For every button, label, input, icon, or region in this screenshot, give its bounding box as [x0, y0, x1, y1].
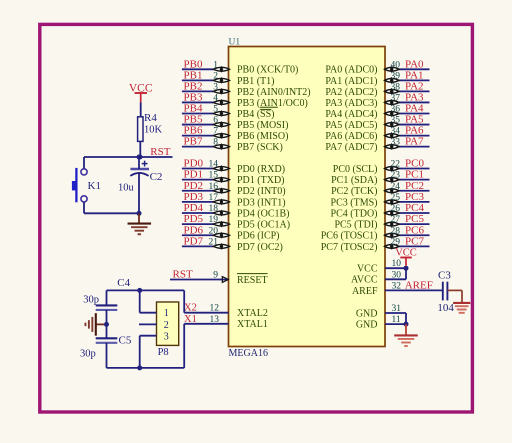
wire X1 vertical — [183, 324, 185, 368]
svg-text:AVCC: AVCC — [351, 275, 378, 286]
wire RST node + net label RST — [84, 146, 173, 159]
svg-text:7: 7 — [213, 127, 218, 137]
svg-text:3: 3 — [213, 82, 218, 92]
pin 39 PA1 wire+label — [325, 69, 429, 86]
pin 18 PD4 wire+label — [182, 202, 290, 219]
wire P8 pin1 — [140, 290, 157, 312]
svg-text:39: 39 — [391, 71, 401, 81]
pin 10 VCC wire — [357, 259, 406, 274]
power symbol VCC (right) — [395, 248, 417, 266]
svg-text:23: 23 — [391, 171, 401, 181]
svg-text:3: 3 — [164, 332, 169, 343]
svg-text:22: 22 — [391, 160, 401, 170]
pin 28 PC6 wire+label — [321, 224, 430, 241]
pin 38 PA2 wire+label — [325, 80, 429, 97]
wire R4-RST node — [139, 141, 141, 157]
pin 14 PD0 wire+label — [182, 158, 285, 175]
svg-text:PA2 (ADC2): PA2 (ADC2) — [325, 87, 377, 98]
svg-text:16: 16 — [209, 182, 219, 192]
svg-text:17: 17 — [209, 193, 219, 203]
svg-text:37: 37 — [391, 93, 401, 103]
svg-text:10u: 10u — [118, 183, 135, 194]
svg-text:XTAL2: XTAL2 — [237, 308, 268, 319]
svg-text:1: 1 — [164, 308, 169, 319]
svg-text:PC3 (TMS): PC3 (TMS) — [331, 197, 378, 208]
svg-text:GND: GND — [356, 308, 378, 319]
pin 37 PA3 wire+label — [325, 91, 429, 108]
svg-text:20: 20 — [209, 226, 219, 236]
svg-text:PC0 (SCL): PC0 (SCL) — [333, 164, 378, 175]
svg-text:C2: C2 — [150, 171, 163, 183]
svg-text:28: 28 — [391, 226, 401, 236]
svg-text:5: 5 — [213, 105, 218, 115]
svg-text:PD1 (TXD): PD1 (TXD) — [237, 175, 285, 186]
svg-text:1: 1 — [213, 60, 218, 70]
svg-text:PD7: PD7 — [184, 235, 204, 247]
svg-text:PA7: PA7 — [405, 136, 424, 148]
pin 20 PD6 wire+label — [182, 224, 280, 241]
designator U1 — [229, 38, 241, 48]
svg-text:14: 14 — [209, 160, 219, 170]
svg-text:PD4 (OC1B): PD4 (OC1B) — [237, 208, 290, 219]
pin 25 PC3 wire+label — [331, 191, 430, 208]
pin 24 PC2 wire+label — [331, 180, 429, 197]
svg-text:12: 12 — [210, 304, 220, 314]
capacitor C3 104 — [437, 270, 454, 314]
pin 32 AREF wire + net label — [352, 280, 443, 297]
pin 1 PB0 wire+label — [182, 58, 299, 75]
svg-text:29: 29 — [391, 237, 401, 247]
svg-text:33: 33 — [391, 138, 401, 148]
svg-text:32: 32 — [392, 281, 402, 291]
pin 40 PA0 wire+label — [325, 58, 429, 75]
wire P8 pin2 — [139, 323, 157, 325]
svg-text:26: 26 — [391, 204, 401, 214]
pin 30 AVCC wire + junction — [351, 266, 409, 286]
svg-text:PD6 (ICP): PD6 (ICP) — [237, 231, 280, 242]
pin 5 PB4 wire+label — [182, 103, 275, 120]
ground (reset RC) — [128, 213, 152, 234]
svg-text:PC7: PC7 — [405, 235, 424, 247]
svg-text:C5: C5 — [119, 334, 132, 346]
svg-text:18: 18 — [209, 204, 219, 214]
svg-text:AREF: AREF — [405, 280, 433, 292]
svg-text:PB6 (MISO): PB6 (MISO) — [237, 131, 288, 142]
svg-text:40: 40 — [391, 60, 401, 70]
svg-text:15: 15 — [209, 171, 219, 181]
pin 13 XTAL1 wire + X1 net label — [184, 314, 268, 330]
pin 26 PC4 wire+label — [331, 202, 430, 219]
svg-text:PA3 (ADC3): PA3 (ADC3) — [325, 98, 377, 109]
svg-text:PA5 (ADC5): PA5 (ADC5) — [325, 120, 377, 131]
pin 29 PC7 wire+label — [321, 235, 430, 252]
pin 16 PD2 wire+label — [182, 180, 286, 197]
pin 11 GND wire + junction — [356, 313, 409, 331]
svg-text:PD2 (INT0): PD2 (INT0) — [237, 186, 286, 197]
pin 17 PD3 wire+label — [182, 191, 286, 208]
svg-text:38: 38 — [391, 82, 401, 92]
svg-text:K1: K1 — [88, 180, 101, 192]
wire crystal bottom + junction — [107, 365, 185, 370]
svg-text:GND: GND — [356, 320, 378, 331]
pin 2 PB1 wire+label — [182, 69, 275, 86]
pin 31 GND wire — [356, 304, 406, 319]
pin 34 PA6 wire+label — [325, 125, 429, 142]
capacitor C2 10u polarized — [118, 155, 162, 214]
svg-text:30p: 30p — [83, 295, 99, 306]
op IC body U1 MEGA16 — [229, 47, 386, 347]
svg-text:PC7 (TOSC2): PC7 (TOSC2) — [321, 242, 378, 253]
svg-text:PA6 (ADC6): PA6 (ADC6) — [325, 131, 377, 142]
svg-text:VCC: VCC — [357, 264, 378, 275]
svg-text:34: 34 — [391, 127, 401, 137]
svg-text:PB2 (AIN0/INT2): PB2 (AIN0/INT2) — [237, 87, 311, 98]
svg-text:PB5 (MOSI): PB5 (MOSI) — [237, 120, 288, 131]
svg-text:6: 6 — [213, 116, 218, 126]
pin 6 PB5 wire+label — [182, 114, 289, 131]
svg-text:U1: U1 — [229, 38, 241, 48]
svg-text:2: 2 — [213, 71, 218, 81]
pin 8 PB7 wire+label — [182, 136, 283, 153]
svg-text:35: 35 — [391, 116, 401, 126]
svg-text:PA1 (ADC1): PA1 (ADC1) — [325, 76, 377, 87]
svg-text:RST: RST — [150, 146, 170, 158]
pin 7 PB6 wire+label — [182, 125, 289, 142]
svg-text:8: 8 — [213, 138, 218, 148]
svg-text:RST: RST — [173, 269, 193, 281]
svg-text:4: 4 — [213, 93, 218, 103]
svg-text:PD5 (OC1A): PD5 (OC1A) — [237, 220, 290, 231]
resonator P8 — [157, 302, 179, 358]
wire K1-C2 bottom + junction — [84, 211, 142, 216]
svg-text:PC4 (TDO): PC4 (TDO) — [331, 208, 378, 219]
pin 23 PC1 wire+label — [331, 169, 429, 186]
svg-text:AREF: AREF — [352, 286, 378, 297]
pin 12 XTAL2 wire + X2 net label — [184, 303, 268, 320]
capacitor C4 30p — [83, 290, 117, 324]
svg-text:PC5 (TDI): PC5 (TDI) — [334, 220, 377, 231]
capacitor C5 30p — [80, 324, 132, 368]
svg-text:PB7 (SCK): PB7 (SCK) — [237, 142, 283, 153]
wire crystal top + junction + label C4 — [107, 277, 185, 293]
svg-text:MEGA16: MEGA16 — [229, 348, 268, 359]
svg-text:PC1 (SDA): PC1 (SDA) — [331, 175, 377, 186]
svg-text:30p: 30p — [80, 349, 96, 360]
ground (crystal, rotated left) — [85, 313, 109, 336]
svg-text:PA0 (ADC0): PA0 (ADC0) — [325, 65, 377, 76]
svg-text:R4: R4 — [144, 112, 157, 124]
svg-text:RESET: RESET — [237, 275, 268, 286]
svg-text:X1: X1 — [184, 314, 197, 325]
svg-text:10K: 10K — [144, 124, 163, 135]
wire VCC-R4 — [140, 103, 142, 117]
svg-text:PC2 (TCK): PC2 (TCK) — [331, 186, 377, 197]
pin 36 PA4 wire+label — [325, 103, 429, 120]
svg-text:P8: P8 — [158, 347, 169, 358]
svg-text:9: 9 — [213, 271, 218, 281]
ground (GND pins) — [394, 324, 418, 346]
svg-text:31: 31 — [392, 304, 402, 314]
svg-text:PD7 (OC2): PD7 (OC2) — [237, 242, 283, 253]
svg-text:36: 36 — [391, 105, 401, 115]
svg-text:24: 24 — [391, 182, 401, 192]
pin 3 PB2 wire+label — [182, 80, 311, 97]
svg-text:PC6 (TOSC1): PC6 (TOSC1) — [321, 231, 378, 242]
svg-text:XTAL1: XTAL1 — [237, 319, 268, 330]
pin 4 PB3 wire+label — [182, 91, 308, 108]
part name MEGA16 — [229, 348, 268, 359]
svg-text:X2: X2 — [184, 303, 197, 314]
svg-text:30: 30 — [392, 270, 402, 280]
pin 21 PD7 wire+label — [182, 235, 283, 252]
svg-text:PB4 (SS): PB4 (SS) — [237, 109, 275, 120]
svg-text:PB1 (T1): PB1 (T1) — [237, 76, 275, 87]
pin 33 PA7 wire+label — [325, 136, 429, 153]
svg-text:PD3 (INT1): PD3 (INT1) — [237, 197, 286, 208]
power symbol VCC (left) — [129, 82, 153, 102]
svg-text:21: 21 — [209, 237, 219, 247]
border frame — [40, 24, 473, 412]
push button K1 — [72, 157, 101, 213]
wire X2 vertical — [183, 290, 185, 312]
wire P8 pin3 — [140, 336, 157, 368]
svg-text:11: 11 — [392, 315, 401, 325]
svg-text:C4: C4 — [117, 277, 130, 289]
pin 27 PC5 wire+label — [334, 213, 429, 230]
resistor R4 10K — [138, 112, 163, 141]
svg-text:PA7 (ADC7): PA7 (ADC7) — [325, 142, 377, 153]
svg-text:13: 13 — [210, 315, 220, 325]
svg-text:19: 19 — [209, 215, 219, 225]
pin 22 PC0 wire+label — [333, 158, 430, 175]
svg-text:PB7: PB7 — [184, 136, 203, 148]
svg-text:PD0 (RXD): PD0 (RXD) — [237, 164, 285, 175]
svg-text:27: 27 — [391, 215, 401, 225]
svg-text:104: 104 — [437, 302, 454, 314]
svg-text:PB0 (XCK/T0): PB0 (XCK/T0) — [237, 65, 298, 76]
pin 9 RESET wire + RST net label — [170, 269, 268, 286]
ground (AREF C3) — [447, 290, 470, 312]
svg-text:2: 2 — [164, 320, 169, 331]
pin 15 PD1 wire+label — [182, 169, 285, 186]
svg-text:25: 25 — [391, 193, 401, 203]
svg-text:VCC: VCC — [395, 248, 417, 259]
svg-text:PA4 (ADC4): PA4 (ADC4) — [325, 109, 377, 120]
svg-text:C3: C3 — [438, 270, 451, 282]
pin 35 PA5 wire+label — [325, 114, 429, 131]
svg-text:10: 10 — [392, 259, 402, 269]
pin 19 PD5 wire+label — [182, 213, 290, 230]
